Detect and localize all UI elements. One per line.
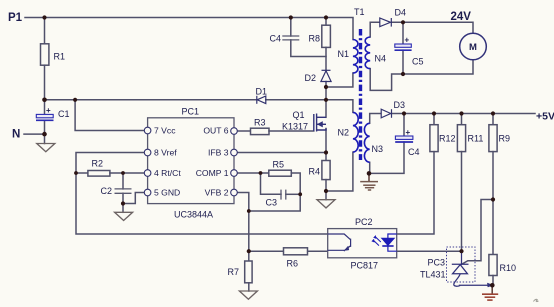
winding N3 [364, 123, 369, 162]
resistor R3 [251, 128, 270, 134]
resistor R7 [245, 261, 252, 283]
svg-text:K1317: K1317 [282, 122, 308, 132]
svg-text:R3: R3 [254, 118, 266, 128]
svg-text:M: M [469, 42, 477, 53]
wire C3 left branch [261, 173, 282, 194]
wire N2 bottom return [326, 152, 353, 191]
svg-text:VFB 2: VFB 2 [205, 188, 229, 198]
wire R10 bottom [492, 276, 494, 286]
wire R12 column top [433, 114, 435, 125]
wire Q1 drain column [325, 87, 327, 117]
wire Vcc node to D1 [45, 99, 257, 101]
svg-text:PC3: PC3 [428, 258, 446, 268]
pin 5 circle [144, 189, 151, 196]
capacitor C4 output 5V [395, 128, 413, 142]
wire C4b bottom stem [369, 142, 404, 173]
svg-text:N: N [12, 129, 20, 141]
wire IFB3 to source node [237, 152, 326, 154]
wire REF branch [461, 200, 493, 265]
svg-text:T1: T1 [354, 7, 365, 17]
ground under R7 [239, 291, 257, 299]
wire R6 left [249, 250, 284, 252]
svg-text:N3: N3 [372, 144, 384, 154]
wire R1 column top [44, 18, 46, 44]
pin 7 circle [144, 127, 151, 134]
wire PC2 LED cathode to node [397, 250, 462, 252]
wire divider node to R10 [492, 200, 494, 255]
svg-text:D1: D1 [256, 87, 268, 97]
wire D1 to drain node [266, 99, 326, 101]
diode D4 [380, 18, 392, 27]
wire R7 ground stem [248, 283, 250, 291]
svg-text:IFB 3: IFB 3 [208, 148, 229, 158]
wire R5 right corner [291, 173, 300, 194]
svg-text:R1: R1 [54, 52, 66, 62]
svg-text:R11: R11 [468, 134, 484, 144]
winding N1 [353, 40, 358, 74]
capacitor C2 [115, 189, 132, 193]
wire N3 bottom [369, 162, 371, 173]
wire C2 bottom to pin5 [123, 193, 145, 204]
svg-text:+: + [405, 36, 410, 45]
wire R9 to divider node [492, 152, 494, 200]
svg-text:C4: C4 [270, 34, 282, 44]
capacitor C3 [281, 190, 286, 200]
op-amp U1 PC1 UC3844A box [148, 118, 234, 204]
resistor R5 [269, 170, 292, 176]
wire R12 to PC2 LED anode [397, 152, 434, 234]
svg-text:C5: C5 [412, 57, 424, 67]
svg-text:24V: 24V [451, 11, 472, 23]
shunt regulator PC3 TL431 [452, 251, 493, 287]
pin labels PC1 [154, 126, 229, 198]
wire R9 column top [492, 114, 494, 125]
wire R2 to pin4 [110, 172, 145, 174]
svg-text:PC2: PC2 [355, 217, 373, 227]
resistor R9 [489, 125, 497, 152]
svg-text:TL431: TL431 [420, 270, 446, 280]
LED of PC2 [372, 234, 397, 251]
wire R8 to D2 [325, 47, 327, 70]
wire P1 top rail [25, 18, 353, 40]
svg-text:8 Vref: 8 Vref [154, 148, 177, 158]
svg-text:P1: P1 [8, 12, 23, 24]
pin 1 circle [231, 170, 238, 177]
wire C4 snubber column [290, 18, 292, 37]
wire C1 bottom stem to ground [44, 120, 46, 143]
svg-text:R2: R2 [92, 159, 104, 169]
svg-text:PC1: PC1 [182, 107, 200, 117]
resistor R4 [322, 161, 330, 180]
svg-text:C3: C3 [266, 198, 278, 208]
wire R1 to Vcc node [44, 65, 46, 100]
resistor R12 [430, 125, 438, 152]
wire C2 top stem [122, 173, 124, 189]
capacitor C4 snubber [282, 36, 299, 40]
wire Q1 source to R4 [325, 129, 327, 161]
svg-text:N1: N1 [338, 49, 350, 59]
wire C4b top stem [403, 114, 405, 137]
wire R8 top [325, 18, 327, 26]
svg-text:OUT 6: OUT 6 [203, 126, 228, 136]
wire N input [24, 133, 45, 135]
pin 4 circle [144, 170, 151, 177]
winding N2 [353, 112, 358, 152]
capacitor C1 [36, 106, 54, 121]
svg-text:R7: R7 [228, 267, 240, 277]
resistor R1 [41, 44, 49, 65]
svg-text:C1: C1 [58, 109, 70, 119]
motor M [460, 33, 487, 60]
wire D3 to 5V rail [392, 113, 536, 115]
svg-text:PC817: PC817 [351, 261, 379, 271]
wire R2 left [76, 172, 88, 174]
wire comp net to VFB column [249, 194, 300, 211]
svg-text:R6: R6 [287, 259, 299, 269]
wire N4 top to D4 [370, 22, 379, 37]
pin 3 circle [231, 149, 238, 156]
winding N4 [365, 37, 370, 69]
wire R4 bottom node [325, 180, 327, 200]
wire R11 to TL431 cathode node [461, 152, 463, 252]
svg-text:N2: N2 [338, 128, 350, 138]
resistor R6 [284, 248, 308, 255]
svg-text:7 Vcc: 7 Vcc [154, 126, 176, 136]
svg-text:C2: C2 [101, 186, 113, 196]
svg-text:C4: C4 [408, 147, 420, 157]
svg-text:D4: D4 [395, 8, 407, 18]
wire D4 to 24V rail [392, 22, 473, 33]
svg-text:R10: R10 [500, 263, 517, 273]
wire Vcc to pin7 [75, 100, 145, 131]
transistor Q1 K1317 mosfet [314, 114, 326, 132]
wire D2 anode [325, 82, 327, 88]
svg-text:+: + [46, 106, 51, 115]
pin 8 circle [144, 149, 151, 156]
resistor R8 [322, 25, 331, 47]
diode D2 [321, 70, 331, 81]
svg-text:R8: R8 [309, 34, 321, 44]
PC3 dashed box [447, 247, 476, 282]
svg-text:4 Rt/Ct: 4 Rt/Ct [154, 168, 181, 178]
svg-text:UC3844A: UC3844A [174, 210, 213, 220]
wire VFB2 column [237, 193, 249, 252]
svg-text:D2: D2 [305, 73, 317, 83]
svg-text:N4: N4 [375, 54, 387, 64]
wire N3 ground stem [368, 173, 370, 181]
pin 2 circle [231, 189, 238, 196]
optocoupler PC2 box [328, 229, 397, 258]
wire earth ground stem right [491, 285, 493, 294]
transformer T1 core [359, 29, 362, 160]
wire R6 to PC2 [308, 250, 328, 252]
svg-text:Q1: Q1 [293, 110, 305, 120]
wire C5 bottom stem [402, 50, 404, 74]
svg-text:R5: R5 [273, 160, 285, 170]
ground under R4 [317, 200, 335, 208]
svg-text:D3: D3 [394, 100, 406, 110]
wire C5 top stem [402, 22, 404, 44]
wire COMP1 to R5 [237, 172, 269, 174]
pin 6 circle [231, 128, 238, 135]
wire pin8 Vref [76, 153, 328, 235]
wire R11 column top [461, 114, 463, 125]
svg-text:+5V: +5V [536, 111, 554, 123]
resistor R10 [489, 255, 497, 276]
wire N2 top [326, 100, 353, 113]
wire N1 bottom [326, 73, 353, 87]
svg-text:R9: R9 [499, 134, 511, 144]
wire R7 top stem [248, 251, 250, 261]
svg-text:R4: R4 [309, 167, 321, 177]
resistor R11 [457, 125, 465, 152]
wire C3 right [286, 193, 300, 195]
wire R3 to gate [269, 130, 314, 132]
earth ground under R10 [482, 294, 498, 300]
ground under C2 [115, 212, 133, 220]
junction node dots [42, 15, 495, 287]
wire C1 top stem [44, 100, 46, 115]
wire C2 ground stem [122, 204, 124, 213]
wire motor bottom return [403, 60, 473, 74]
capacitor C5 [395, 36, 412, 51]
svg-text:COMP 1: COMP 1 [196, 168, 229, 178]
svg-text:+: + [406, 128, 411, 137]
svg-text:5 GND: 5 GND [154, 188, 180, 198]
ground under C1 [37, 144, 55, 152]
diode D3 [381, 109, 391, 118]
resistor R2 [88, 171, 110, 177]
wire OUT6 to R3 [237, 130, 251, 132]
wire N4 bottom return [370, 69, 403, 91]
diode D1 [257, 96, 266, 104]
earth ground under N3 [360, 182, 378, 190]
phototransistor of PC2 [328, 234, 351, 251]
watermark squiggle [534, 299, 539, 301]
svg-text:R12: R12 [439, 134, 456, 144]
wire N3 top to D3 [370, 114, 381, 124]
